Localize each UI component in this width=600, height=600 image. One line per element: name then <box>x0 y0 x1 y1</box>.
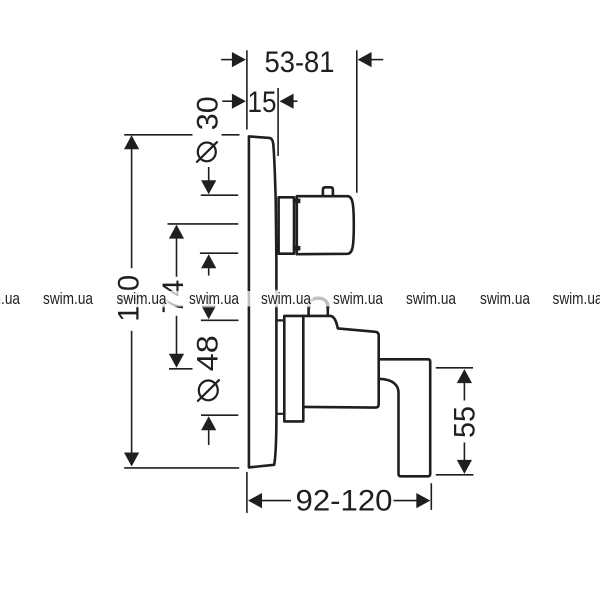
svg-text:swim.ua: swim.ua <box>117 289 167 308</box>
handle left-edge notch bottom (filled) <box>293 246 301 251</box>
dim Ø48 top extension tick <box>201 319 239 321</box>
stop ring pipe left edge <box>307 303 310 316</box>
svg-text:48: 48 <box>192 335 225 371</box>
dim 74 lower arrow tail <box>176 316 178 355</box>
svg-text:swim.ua: swim.ua <box>553 289 600 308</box>
diameter symbol of Ø30 <box>198 143 216 162</box>
arrowhead 110 bottom <box>124 453 139 467</box>
dim 53-81 right extension line <box>356 50 358 192</box>
svg-text:swim.ua: swim.ua <box>333 289 383 308</box>
arrowhead 15 left <box>232 94 246 109</box>
arrowhead Ø48 upper (points down) <box>201 305 216 319</box>
dim Ø48 bottom extension tick <box>201 414 238 416</box>
svg-text:swim.ua: swim.ua <box>43 289 93 308</box>
index tab on thermostat handle <box>323 187 333 196</box>
wall plate (escutcheon) side profile <box>249 136 277 467</box>
dim 92-120 right arrow tail <box>394 500 418 502</box>
dim 92-120 left arrow tail <box>261 500 292 502</box>
lower spacer tick bottom <box>277 413 285 415</box>
dim 92-120 right extension line <box>430 483 432 510</box>
diameter symbol of Ø48 <box>199 381 218 401</box>
svg-text:swim.ua: swim.ua <box>0 289 20 308</box>
lower spacer tick top <box>277 319 285 321</box>
dim 92-120 left extension line <box>246 472 248 513</box>
dim 15 right arrow tail <box>292 100 298 102</box>
dim 55 top extension tick <box>436 367 473 369</box>
dim 55 upper arrow tail <box>463 382 465 400</box>
dim 53-81 left extension line <box>246 50 248 129</box>
arrowhead 15 right <box>280 94 294 109</box>
arrowhead 92-120 right <box>416 493 430 508</box>
svg-text:swim.ua: swim.ua <box>261 289 311 308</box>
dim 110 line lower tail <box>131 331 133 454</box>
dim 53-81 left arrow tail <box>221 59 233 61</box>
svg-text:30: 30 <box>192 96 225 130</box>
svg-text:55: 55 <box>449 406 482 438</box>
dim 15 left arrow tail <box>222 100 233 102</box>
svg-text:53-81: 53-81 <box>265 46 335 79</box>
lower valve body <box>303 316 378 408</box>
arrowhead 55 bottom <box>457 460 472 474</box>
arrowhead 53-81 right <box>358 52 372 67</box>
dim Ø48 lower arrow tail <box>208 429 210 445</box>
dim Ø30 upper arrow tail <box>208 167 210 181</box>
dim 74 upper arrow tail <box>176 238 178 277</box>
dim 15 right extension line <box>277 88 279 156</box>
dim 74 top extension tick <box>168 223 239 225</box>
dim 110 line upper tail <box>131 148 133 268</box>
svg-text:swim.ua: swim.ua <box>189 289 239 308</box>
dim 53-81 right arrow tail <box>371 59 384 61</box>
arrowhead Ø48 lower (points up) <box>201 416 216 430</box>
dim Ø30 lower arrow tail <box>208 268 210 276</box>
arrowhead Ø30 upper (points down) <box>201 180 216 194</box>
bottom extension line from plate <box>124 467 239 469</box>
arrowhead 53-81 left <box>232 52 246 67</box>
stop ring pipe right edge <box>326 303 329 316</box>
arrowhead 74 bottom <box>169 354 184 368</box>
arrowhead Ø30 lower (points up) <box>201 254 216 268</box>
dim 55 bottom extension tick <box>436 474 474 476</box>
svg-text:swim.ua: swim.ua <box>480 289 530 308</box>
dim Ø30 top extension tick <box>201 194 238 196</box>
svg-text:15: 15 <box>248 86 277 119</box>
dim 55 lower arrow tail <box>463 443 465 462</box>
arrowhead 55 top <box>457 369 472 383</box>
dim Ø48 upper arrow tail <box>208 296 210 307</box>
dim 74 bottom extension tick <box>169 368 193 370</box>
svg-text:swim.ua: swim.ua <box>406 289 456 308</box>
thermostat sleeve (upper adapter) <box>279 197 294 253</box>
lower valve flange <box>284 316 303 422</box>
arrowhead 110 top <box>124 135 139 149</box>
lever handle Q (arm + grip) <box>379 359 431 476</box>
top extension line from plate left segment <box>124 134 192 136</box>
thermostat handle body U1 top <box>297 196 354 254</box>
stop ring dome cap <box>309 298 328 307</box>
handle left-edge notch top (filled) <box>293 199 301 204</box>
dim Ø30 bottom extension tick <box>200 252 238 254</box>
top extension line from plate right segment <box>222 134 240 136</box>
svg-text:92-120: 92-120 <box>296 485 393 518</box>
arrowhead 74 top <box>169 225 184 239</box>
arrowhead 92-120 left <box>248 493 262 508</box>
watermark translucent band <box>0 291 600 307</box>
watermark halo boxes <box>0 290 600 308</box>
